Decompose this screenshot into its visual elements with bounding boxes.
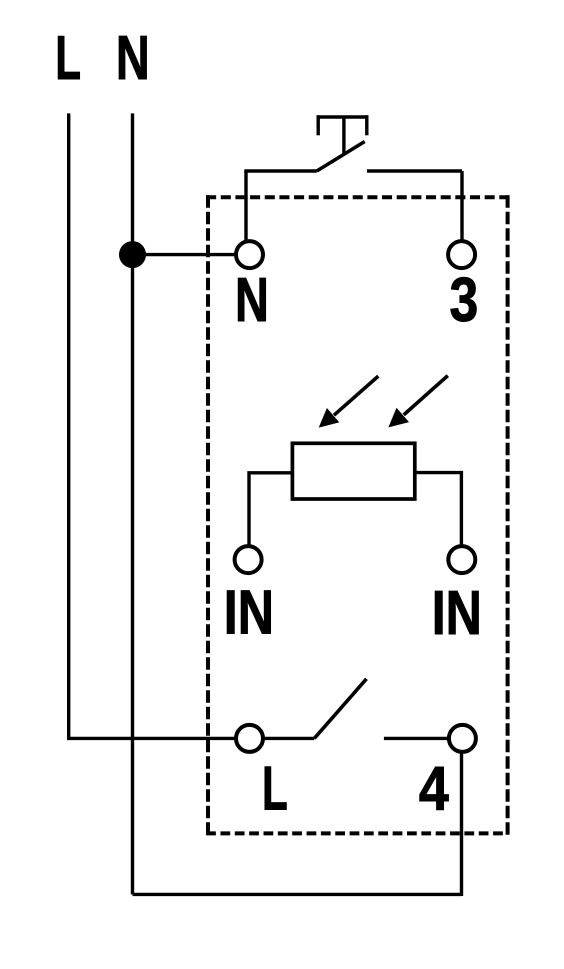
light sensor body (photoresistor rectangle) xyxy=(292,443,414,499)
switch contact left wire (terminal L) xyxy=(250,737,315,740)
push-button contact blade xyxy=(317,142,365,172)
light arrow 2 head xyxy=(388,408,409,428)
terminal 4 circle xyxy=(449,725,476,752)
svg-text:N: N xyxy=(116,22,150,92)
svg-text:IN: IN xyxy=(224,577,274,646)
terminal IN left circle xyxy=(235,546,262,573)
enclosure left edge xyxy=(206,195,210,835)
enclosure top edge xyxy=(206,195,509,199)
terminal IN right circle xyxy=(448,546,475,573)
switch contact blade xyxy=(314,679,366,739)
dashed enclosure (device outline) xyxy=(206,195,509,835)
svg-text:N: N xyxy=(235,265,269,335)
wire N vertical xyxy=(131,113,134,894)
wire terminal 3 up xyxy=(460,171,463,255)
wire sensor right lead xyxy=(413,473,461,560)
enclosure bottom edge xyxy=(206,831,503,835)
svg-text:L: L xyxy=(55,24,81,93)
light arrow 1 shaft xyxy=(334,376,378,415)
terminal N circle xyxy=(236,241,263,268)
svg-text:IN: IN xyxy=(432,578,482,647)
push-button actuator right tick xyxy=(365,115,368,135)
push-button actuator stem xyxy=(342,117,345,154)
terminal L circle xyxy=(236,725,263,752)
light arrow 2 shaft xyxy=(404,376,448,415)
wire sensor left lead xyxy=(249,473,294,560)
wire terminal N up xyxy=(244,171,247,255)
push-button actuator (T bar) xyxy=(317,115,369,118)
enclosure right edge xyxy=(506,195,510,835)
wire push-button left horizontal xyxy=(244,169,316,172)
wire bottom right vertical to terminal 4 xyxy=(460,738,463,896)
svg-text:4: 4 xyxy=(419,754,449,823)
wire L horizontal to terminal L xyxy=(67,737,250,740)
wire junction to terminal N xyxy=(133,253,250,256)
wire bottom horizontal xyxy=(133,893,462,896)
wire L vertical xyxy=(67,113,70,738)
svg-text:3: 3 xyxy=(450,265,479,334)
svg-text:L: L xyxy=(262,755,288,824)
light arrow 1 head xyxy=(319,408,340,428)
terminal 3 circle xyxy=(448,241,475,268)
push-button actuator left tick xyxy=(317,115,320,135)
wire push-button right horizontal xyxy=(367,169,462,172)
switch contact right wire (terminal 4) xyxy=(384,737,463,740)
junction dot xyxy=(119,241,146,268)
